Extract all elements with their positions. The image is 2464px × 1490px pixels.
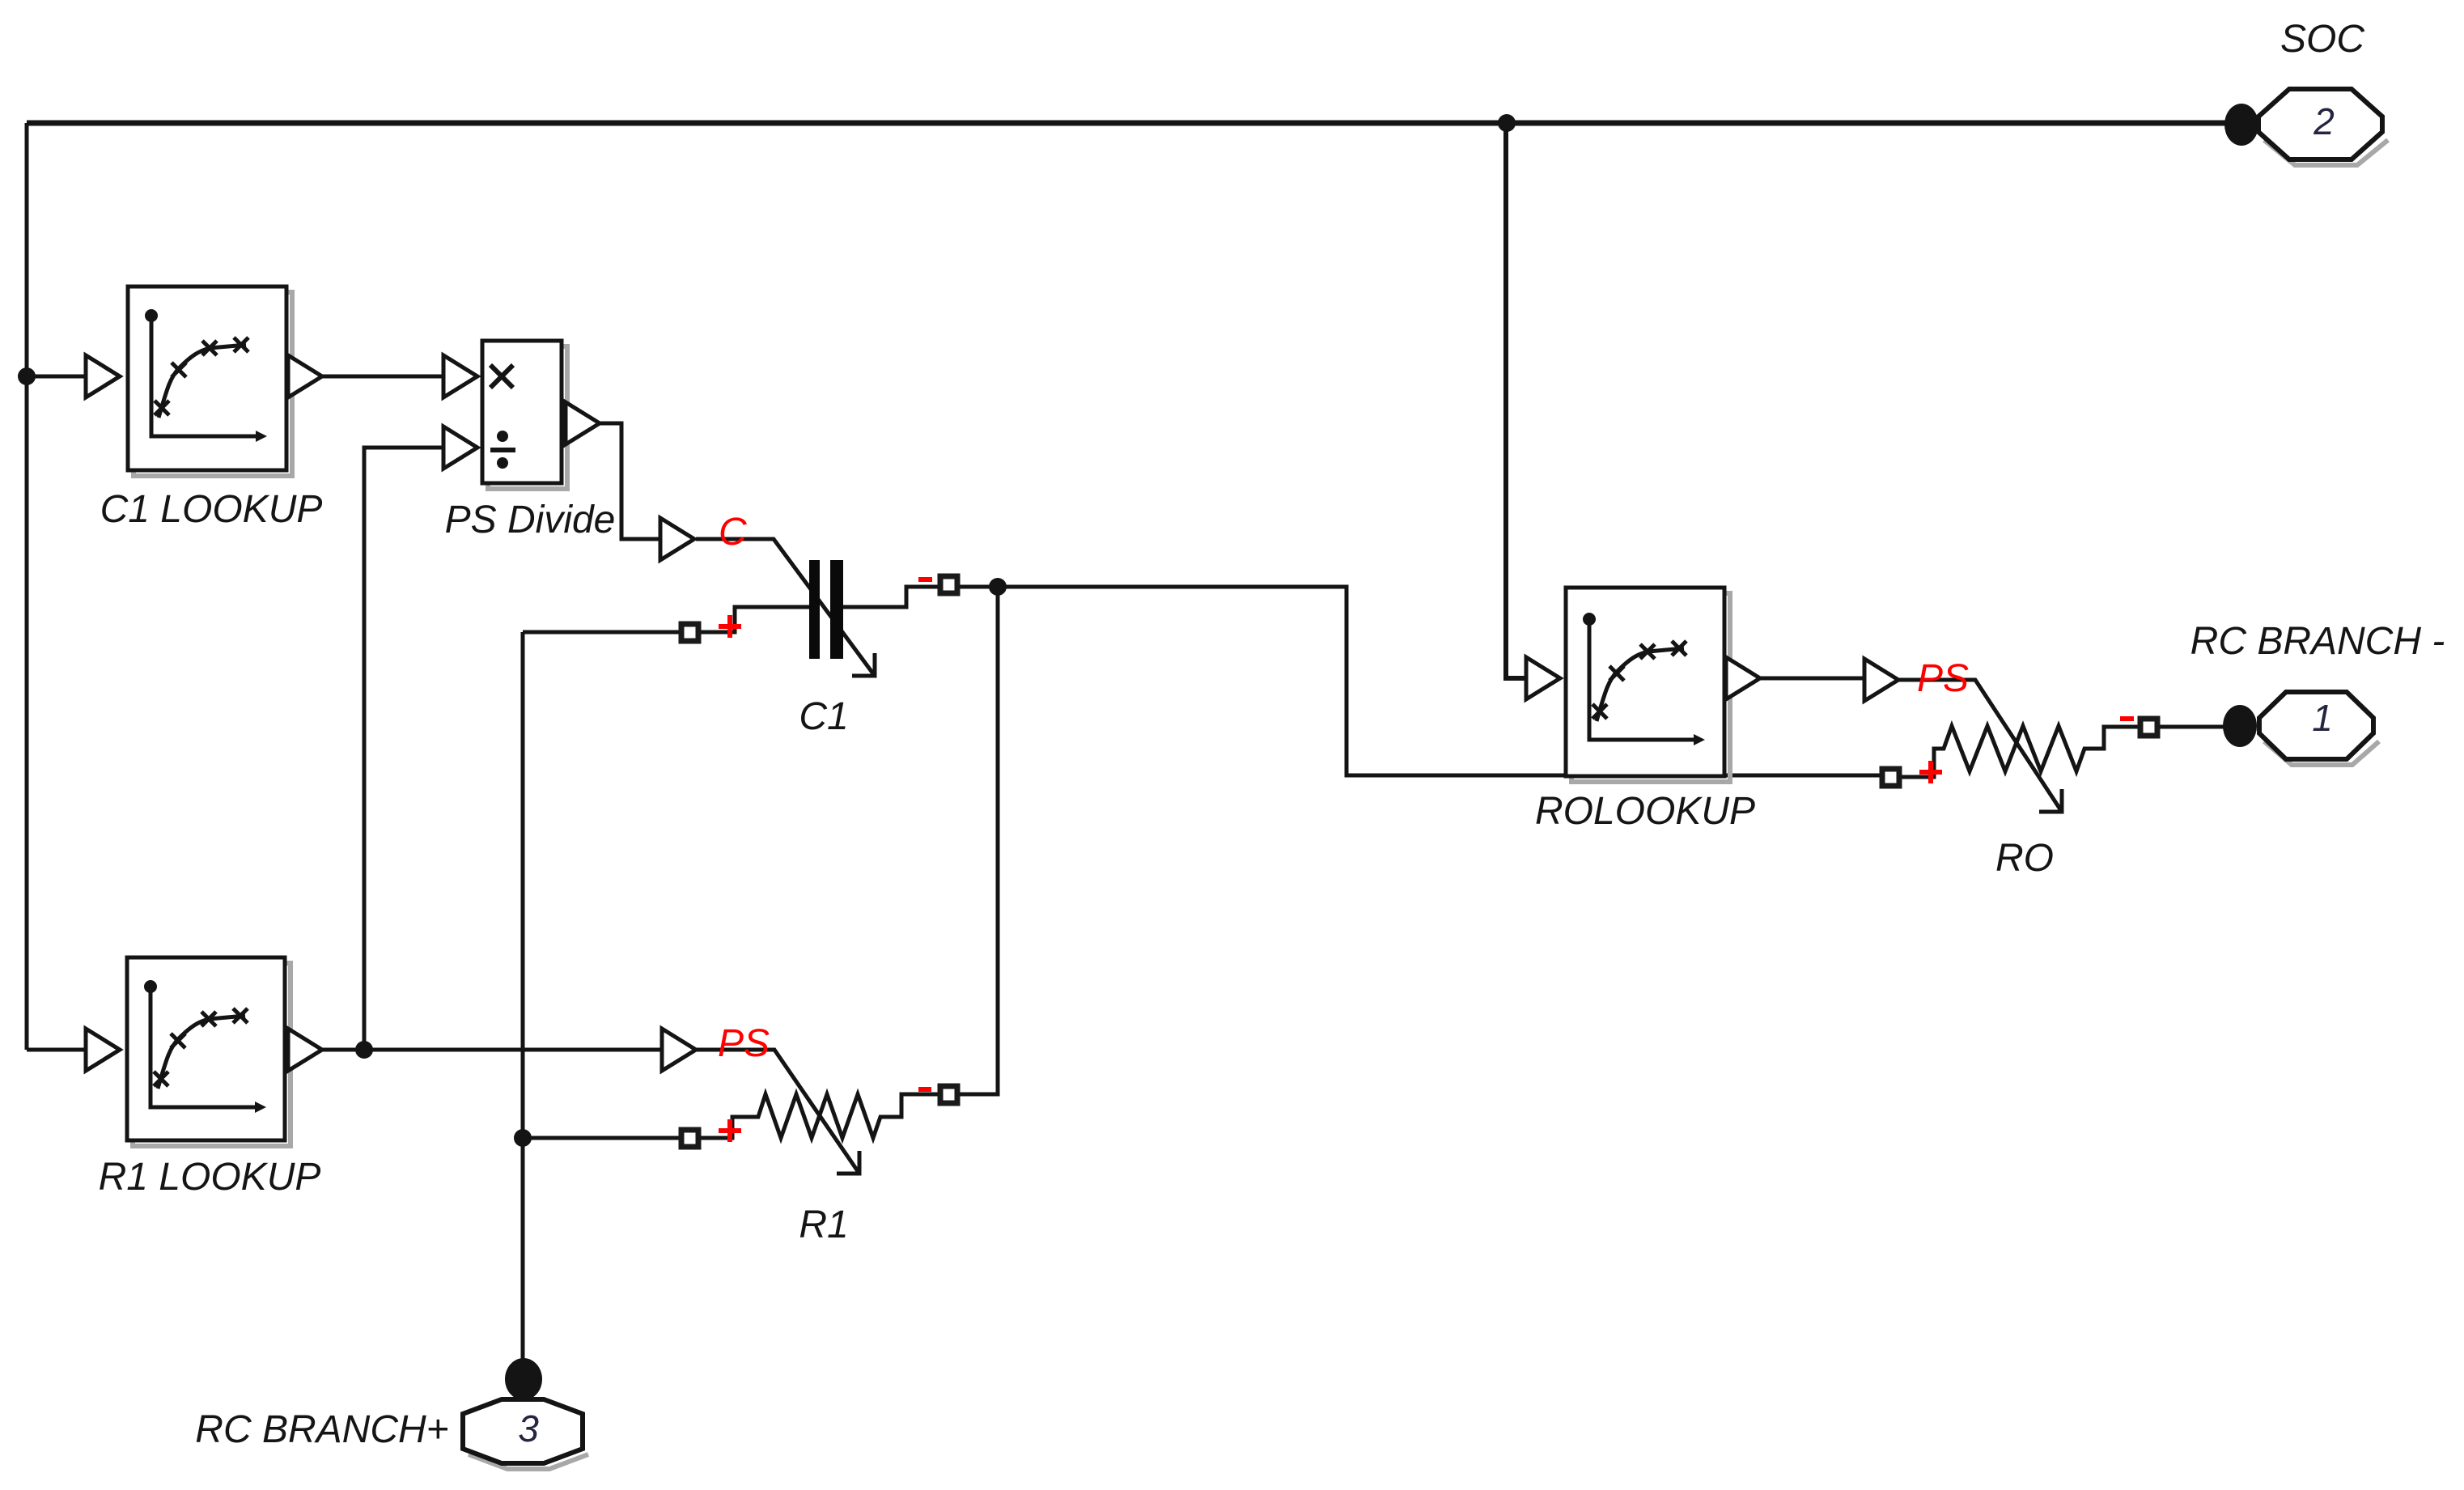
hexagon port 2 SOC (2258, 89, 2382, 159)
svg-text:RC BRANCH -: RC BRANCH - (2190, 620, 2445, 663)
wire into C1 LOOKUP (27, 375, 86, 379)
arrowhead capacitor variable arrow (852, 653, 875, 676)
svg-text:R1 LOOKUP: R1 LOOKUP (99, 1156, 321, 1199)
svg-text:2: 2 (2313, 100, 2335, 142)
wire PS to RO resistor (diagonal) (1898, 680, 2062, 812)
arrow PS Divide output (566, 402, 600, 444)
red plus C1 (719, 615, 741, 638)
arrow R1 PS input (662, 1029, 696, 1071)
wire C1 LOOKUP out to PS Divide (322, 375, 443, 379)
wire R1 branch up to PS Divide divisor input (364, 448, 443, 1050)
red plus RO (1919, 761, 1942, 783)
block R1 LOOKUP (127, 957, 285, 1140)
arrow R1 LOOKUP input (86, 1029, 120, 1071)
junction dot riser to R1 (514, 1129, 532, 1147)
svg-text:C: C (719, 511, 747, 554)
arrow ROLOOKUP output (1726, 657, 1760, 699)
arrowhead R1 variable arrow (837, 1151, 859, 1174)
red plus R1 (719, 1119, 741, 1142)
svg-text:PS: PS (718, 1022, 770, 1065)
port square R1 - (940, 1086, 957, 1103)
red minus C1 (918, 577, 932, 582)
arrow PS Divide input divide (443, 427, 477, 469)
block C1 LOOKUP (128, 287, 286, 470)
hexagon port 1 RC BRANCH - (2259, 692, 2373, 759)
wire SOC bus drop to ROLOOKUP (1506, 123, 1526, 678)
svg-text:C1: C1 (799, 695, 848, 738)
physical port squares (681, 576, 2157, 1147)
svg-text:PS: PS (1917, 657, 1969, 700)
wire left vertical bus (25, 123, 29, 1050)
wire ROLOOKUP out to RO PS arrow (1760, 677, 1863, 681)
port square C1 - (940, 576, 957, 593)
arrowhead RO variable arrow (2039, 789, 2062, 812)
terminal dot port 1 (2223, 705, 2257, 747)
arrow RO PS input (1864, 659, 1898, 701)
wire R1 LOOKUP out to R1 PS arrow (322, 1048, 662, 1052)
wire RO - port to port 1 (2157, 725, 2225, 729)
wire riser to R1 + port (523, 1136, 681, 1140)
red minus RO (2120, 716, 2134, 721)
svg-text:SOC: SOC (2280, 18, 2364, 61)
port square R1 + (681, 1130, 698, 1147)
junction dot R1 lookup out (355, 1041, 373, 1059)
wire PS Divide out to C input (600, 423, 660, 539)
wire node down to R1 - port (958, 587, 998, 1094)
red minus R1 (918, 1087, 931, 1092)
svg-text:ROLOOKUP: ROLOOKUP (1535, 790, 1755, 833)
arrow C1 LOOKUP input (86, 355, 120, 397)
svg-text:3: 3 (518, 1407, 539, 1450)
wire node C to capacitor control (diagonal) (696, 539, 875, 676)
svg-text:1: 1 (2312, 697, 2333, 739)
svg-text:C1 LOOKUP: C1 LOOKUP (100, 488, 323, 531)
port arrows (triangles) (86, 355, 1898, 1071)
svg-text:PS Divide: PS Divide (445, 499, 616, 541)
hexagon port 3 RC BRANCH+ (463, 1399, 583, 1463)
wire C1 + lead (699, 607, 809, 632)
terminal dot port 3 (505, 1358, 542, 1400)
junction dot node after C1 (989, 578, 1007, 596)
block ROLOOKUP (1566, 588, 1724, 776)
arrow ROLOOKUP input (1526, 657, 1560, 699)
arrow R1 LOOKUP output (288, 1029, 322, 1071)
wire into R1 LOOKUP (27, 1048, 86, 1052)
svg-text:RC BRANCH+: RC BRANCH+ (195, 1408, 448, 1451)
capacitor C1 plates (809, 560, 843, 659)
arrow C1 LOOKUP output (288, 355, 322, 397)
wire top bus to SOC (27, 121, 2233, 126)
wire PS to R1 resistor (diagonal) (696, 1050, 859, 1174)
junction dot left bus (18, 367, 36, 385)
port square RO + (1882, 769, 1899, 786)
svg-text:RO: RO (1995, 837, 2054, 880)
arrow C control input (660, 518, 694, 560)
port square RO - (2140, 719, 2157, 736)
junction dot SOC bus (1498, 114, 1516, 132)
port square C1 + (681, 624, 698, 641)
terminal dot SOC (2224, 104, 2258, 146)
arrow PS Divide input x (443, 355, 477, 397)
wire node after C1 to RO + port (958, 587, 1881, 775)
wire RC BRANCH+ vertical riser (521, 632, 525, 1362)
wire riser to C1 + port (523, 630, 681, 635)
resistor RO body (1900, 726, 2140, 777)
resistor R1 body (699, 1094, 939, 1138)
svg-text:R1: R1 (799, 1203, 848, 1246)
block PS Divide (482, 341, 562, 483)
wire C1 - lead (843, 587, 939, 607)
